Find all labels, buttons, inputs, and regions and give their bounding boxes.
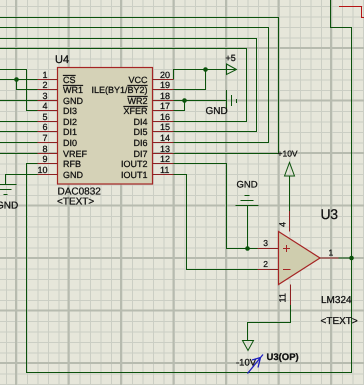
power -10V symbol for op-amp pin 11 <box>236 305 291 369</box>
junction dot WR2/XFER node <box>182 98 187 103</box>
svg-text:IOUT2: IOUT2 <box>121 159 148 169</box>
pin 16 of U4 (right) <box>153 112 174 122</box>
svg-text:DI5: DI5 <box>133 127 147 137</box>
svg-text:1: 1 <box>329 248 334 258</box>
pin 11 of U4 (right) <box>153 165 174 175</box>
annotation cursor arrow (blue) <box>248 355 264 374</box>
pin 1 of U3 (output) <box>320 248 339 259</box>
svg-text:13: 13 <box>160 144 170 154</box>
svg-text:WR1: WR1 <box>63 85 83 95</box>
svg-text:2: 2 <box>263 259 268 269</box>
svg-text:U3(OP): U3(OP) <box>267 352 299 363</box>
wire DAC pin 12 IOUT2 to op-amp noninverting input <box>174 164 258 249</box>
svg-text:<TEXT>: <TEXT> <box>57 197 94 208</box>
IC U4 DAC0832 body <box>58 68 153 185</box>
wire net VREF to DAC pin 8 <box>0 153 38 155</box>
ground symbol lower left <box>0 185 17 195</box>
pin 4 of U4 (left) <box>38 101 58 111</box>
svg-text:VREF: VREF <box>63 149 88 159</box>
wire DAC pin 18 WR2 to ground <box>174 100 227 102</box>
pin 2 of U4 (left) <box>38 80 58 90</box>
pin 7 of U4 (left) <box>38 133 58 143</box>
svg-text:IOUT1: IOUT1 <box>121 170 148 180</box>
svg-text:10: 10 <box>37 165 47 175</box>
svg-text:19: 19 <box>160 80 170 90</box>
wire DAC pin 10 to ground <box>6 175 38 185</box>
svg-text:5: 5 <box>42 112 47 122</box>
pin 19 of U4 (right) <box>153 80 174 90</box>
ground symbol top right (rotated) <box>227 90 237 112</box>
svg-text:3: 3 <box>263 238 268 248</box>
pin 3 of U4 (left) <box>38 91 58 101</box>
svg-text:2: 2 <box>42 80 47 90</box>
svg-text:DI0: DI0 <box>63 138 77 148</box>
wire net D3 to DAC pin 4 <box>0 70 38 111</box>
svg-text:GND: GND <box>63 96 84 106</box>
svg-text:15: 15 <box>160 122 170 132</box>
svg-text:16: 16 <box>160 112 170 122</box>
junction dot node CS <box>14 77 19 82</box>
svg-text:18: 18 <box>160 91 170 101</box>
svg-text:4: 4 <box>278 222 288 227</box>
svg-text:11: 11 <box>278 293 288 302</box>
svg-text:8: 8 <box>42 144 47 154</box>
svg-text:DI6: DI6 <box>133 138 147 148</box>
svg-text:GND: GND <box>206 106 228 117</box>
wire op-amp output to feedback vertical <box>339 257 352 259</box>
pin 1 of U4 (left) <box>38 70 58 80</box>
svg-text:9: 9 <box>42 154 47 164</box>
svg-text:+10V: +10V <box>278 149 298 159</box>
pin 13 of U4 (right) <box>153 144 174 154</box>
svg-text:1: 1 <box>42 70 47 80</box>
svg-text:12: 12 <box>160 154 170 164</box>
wire net D2 to DAC pin 5 <box>0 121 38 123</box>
pin 17 of U4 (right) <box>153 101 174 111</box>
pin 11 of U3 (V-) <box>278 285 291 306</box>
svg-text:+5: +5 <box>226 53 236 63</box>
wire DAC pin 11 IOUT1 to op-amp inverting input <box>174 175 258 270</box>
pin 6 of U4 (left) <box>38 122 58 132</box>
svg-text:ILE(BY1/BY2): ILE(BY1/BY2) <box>91 85 147 95</box>
svg-text:<TEXT>: <TEXT> <box>321 316 358 327</box>
pin 18 of U4 (right) <box>153 91 174 101</box>
svg-text:17: 17 <box>160 101 170 111</box>
ground symbol middle (inverted) above op-amp + input <box>236 196 259 249</box>
svg-text:20: 20 <box>160 70 170 80</box>
wire net D0 to DAC pin 7 <box>0 142 38 144</box>
op-amp - input marker <box>283 269 291 271</box>
pin 5 of U4 (left) <box>38 112 58 122</box>
pin 9 of U4 (left) <box>38 154 58 164</box>
svg-text:U3: U3 <box>321 206 339 222</box>
svg-text:14: 14 <box>160 133 170 143</box>
pin 4 of U3 (V+) <box>278 211 290 232</box>
op-amp U3 LM324 body <box>279 232 321 285</box>
power +5 symbol <box>227 64 237 75</box>
pin 14 of U4 (right) <box>153 133 174 143</box>
svg-text:3: 3 <box>42 91 47 101</box>
wire net GND to DAC pin 3 <box>0 100 38 102</box>
pin 3 of U3 <box>258 238 279 249</box>
svg-text:4: 4 <box>42 101 47 111</box>
wire net D4 (bus line 4 to DAC pin 16) <box>0 49 247 122</box>
pin 20 of U4 (right) <box>153 70 174 80</box>
junction dot output node <box>349 256 354 261</box>
svg-text:DI2: DI2 <box>63 117 77 127</box>
wire DAC pin 20 VCC to +5 <box>174 70 237 80</box>
svg-text:DI7: DI7 <box>133 149 147 159</box>
wire branch CS to WR1 (pin 2) <box>17 80 38 90</box>
svg-text:U4: U4 <box>55 54 69 66</box>
pin 10 of U4 (left) <box>37 165 57 175</box>
svg-text:CS: CS <box>63 75 76 85</box>
wire DAC pin 19 ILE to +5 <box>174 70 206 90</box>
svg-text:11: 11 <box>160 165 169 175</box>
junction dot op-amp + input node <box>245 246 250 251</box>
wire net D7 (bus line 1 to DAC pin 13) <box>0 18 279 154</box>
svg-text:GND: GND <box>237 180 258 191</box>
svg-text:7: 7 <box>42 133 47 143</box>
pin 12 of U4 (right) <box>153 154 174 164</box>
svg-text:WR2: WR2 <box>128 96 148 106</box>
svg-text:DI1: DI1 <box>63 127 77 137</box>
wire net D6 (bus line 2 to DAC pin 14) <box>0 28 269 143</box>
op-amp + input marker <box>283 245 290 252</box>
wire net D5 (bus line 3 to DAC pin 15) <box>0 39 257 132</box>
svg-text:XFER: XFER <box>123 106 148 116</box>
svg-text:GND: GND <box>0 201 18 212</box>
wire net D1 to DAC pin 6 <box>0 131 38 133</box>
power +10V symbol for op-amp pin 4 <box>278 149 298 212</box>
junction dot +5 node <box>203 67 208 72</box>
pin 8 of U4 (left) <box>38 144 58 154</box>
svg-text:DI3: DI3 <box>63 106 77 116</box>
svg-text:LM324: LM324 <box>321 295 352 306</box>
pin 2 of U3 <box>258 259 279 270</box>
svg-text:VCC: VCC <box>128 75 148 85</box>
pin 15 of U4 (right) <box>153 122 174 132</box>
wire DAC pin 17 XFER to ground branch <box>174 101 185 111</box>
svg-text:DI4: DI4 <box>133 117 147 127</box>
svg-text:6: 6 <box>42 122 47 132</box>
wire red net top right <box>339 7 364 18</box>
svg-text:RFB: RFB <box>63 159 81 169</box>
wire net CS to DAC pin 1 <box>0 79 38 81</box>
svg-text:GND: GND <box>63 170 84 180</box>
